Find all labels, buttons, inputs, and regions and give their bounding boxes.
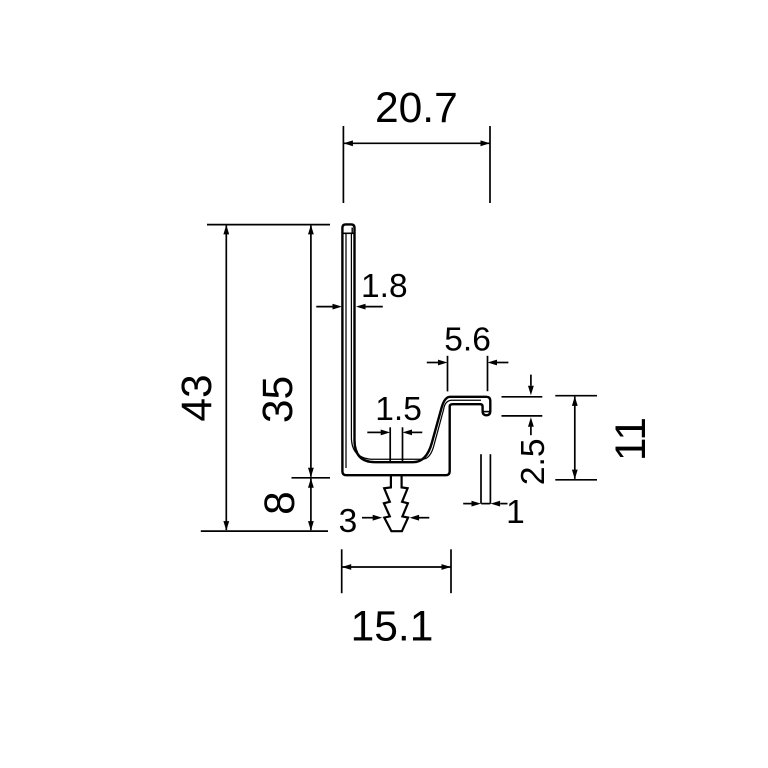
dimension 8: dimension line with arrows [310,479,312,531]
extension line between 35 and 8 [292,477,331,479]
dimension 1.8: right leader arrow [365,306,383,308]
barbed spike fastener leg [384,473,408,531]
svg-text:35: 35 [255,376,302,423]
dimension 15.1: extension lines [341,549,343,593]
svg-text:43: 43 [174,374,221,421]
dimension 20.7: extension lines [342,126,344,203]
dimension 11: extension lines [555,395,597,397]
wall inner thin line left [345,234,347,469]
dimension 15.1: dimension line with arrows [342,566,451,568]
dimension 35: dimension line with arrows [310,226,312,477]
svg-text:15.1: 15.1 [351,604,434,651]
dimension 2.5: extension lines [502,396,543,398]
hook tip chord line [483,411,489,413]
panel gap detail: two parallel lines [480,454,482,503]
dimension 5.6: leader arrows [427,362,439,364]
dimension 2.5: leader arrows [530,375,532,386]
dimension 11: dimension line with arrows [574,397,576,479]
extension line bottom (43 and 8) [201,530,328,532]
svg-text:1.8: 1.8 [361,268,408,305]
dimension 1.5: extension lines [389,427,391,461]
svg-text:8: 8 [257,491,304,515]
svg-text:2.5: 2.5 [515,439,552,486]
dimension 5.6: extension lines [447,356,449,392]
wall cap chord line [343,232,353,234]
wall inner thin line right, channel bottom thin line, diagonal and arm thin line [351,234,481,460]
dimension 43: dimension line with arrows [225,226,227,530]
dimension 1: leader arrows [463,503,471,505]
svg-text:11: 11 [608,417,655,461]
wall cap inner corner line [351,228,353,233]
svg-text:3: 3 [339,503,358,540]
dimension 20.7: dimension line with arrows [343,142,490,144]
dimension 1.8: left leader arrow [316,306,333,308]
dimension 1.5: leader arrows [367,431,381,433]
dimension 1: dimension line segment [481,503,490,505]
svg-text:5.6: 5.6 [444,321,491,358]
svg-text:1: 1 [506,494,525,531]
shared extension line top (43 and 35) [207,224,330,226]
dimension 3: leader arrows at barb [362,517,374,519]
svg-text:20.7: 20.7 [375,85,458,132]
profile outer contour (J-channel with clip arm and hook) [342,224,490,475]
svg-text:1.5: 1.5 [375,391,422,428]
